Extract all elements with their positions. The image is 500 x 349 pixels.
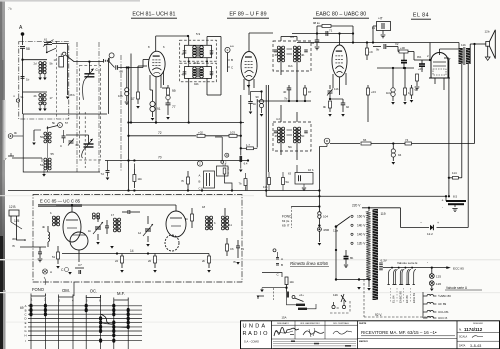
svg-text:EABC 80: EABC 80	[398, 291, 402, 303]
svg-text:N.: N.	[459, 328, 462, 332]
svg-text:90: 90	[256, 95, 260, 99]
terminal gram 1	[8, 134, 13, 139]
svg-text:DIR. CENTRALE: DIR. CENTRALE	[333, 322, 349, 325]
title block frame	[241, 321, 500, 349]
wire tap2	[23, 91, 48, 93]
switch blade osc	[48, 126, 58, 129]
wire B+ top	[297, 42, 459, 44]
capacitor 74 end	[107, 161, 109, 171]
oscillator coil 51	[44, 158, 47, 161]
UNDA RADIO logo cell	[271, 321, 273, 349]
coil 181	[52, 216, 55, 219]
svg-text:15A: 15A	[282, 316, 287, 320]
svg-text:4b: 4b	[210, 73, 214, 77]
capacitor 64 to ground	[316, 34, 318, 41]
svg-text:Rimetto linea 63/56: Rimetto linea 63/56	[290, 261, 328, 266]
fm misc wires	[97, 207, 99, 216]
svg-text:6,3V: 6,3V	[381, 259, 388, 263]
disegno cell	[456, 321, 458, 349]
svg-text:B: B	[281, 263, 283, 267]
svg-text:50: 50	[40, 135, 44, 139]
resistor 94	[392, 142, 394, 144]
svg-text:63: 63	[288, 172, 292, 176]
svg-text:40: 40	[283, 90, 287, 94]
svg-text:1174/112: 1174/112	[464, 327, 483, 332]
internal dash divider	[55, 41, 57, 119]
svg-text:58: 58	[26, 47, 30, 51]
tube V2 EF89	[241, 52, 257, 81]
capacitor 65 annotation	[335, 245, 337, 250]
IF transformer T2 box	[273, 41, 311, 71]
svg-text:9vb: 9vb	[288, 64, 293, 68]
capacitor 56	[21, 76, 25, 78]
svg-text:66: 66	[363, 138, 367, 142]
capacitor cathode	[250, 92, 252, 102]
terminal 1 left	[62, 52, 65, 55]
resistor 103	[367, 88, 370, 95]
resistor motor	[286, 292, 289, 298]
wire to mixer grid	[66, 55, 103, 61]
capacitor electrolytic grid	[403, 53, 405, 59]
signature disegnato	[274, 327, 299, 336]
phono jack box	[217, 166, 229, 176]
gang link dashed x85	[84, 112, 86, 168]
svg-text:5tb: 5tb	[288, 145, 292, 149]
capacitor 40b	[341, 102, 346, 104]
lamp 106	[318, 224, 320, 226]
svg-text:300: 300	[12, 237, 17, 241]
svg-text:RICEVITORE MA. MF. 63/15 –: RICEVITORE MA. MF. 63/15 – 16 –1•	[361, 330, 437, 335]
svg-text:67: 67	[131, 97, 135, 101]
ground osc bottom	[47, 170, 49, 172]
svg-text:Ø06: Ø06	[324, 228, 330, 232]
heater U &#189;ABC 80	[423, 294, 436, 296]
capacitor FM1	[38, 251, 42, 253]
svg-text:8.5: 8.5	[453, 195, 458, 199]
svg-text:12b: 12b	[485, 30, 490, 34]
svg-text:EF 89 – U F 89: EF 89 – U F 89	[229, 12, 266, 18]
svg-text:57: 57	[65, 121, 69, 125]
svg-text:b4: b4	[311, 41, 315, 45]
wire vertical right 1	[448, 58, 450, 196]
svg-text:69: 69	[20, 306, 24, 310]
wire terminal down	[108, 58, 110, 114]
svg-text:−: −	[420, 221, 422, 225]
svg-text:EF 89: EF 89	[405, 295, 409, 303]
svg-text:UCC 8·: UCC 8·	[438, 316, 448, 320]
dash divider x121	[120, 55, 122, 172]
wire bus 75	[257, 100, 311, 102]
filter box 63-10b	[295, 173, 313, 185]
svg-text:72: 72	[158, 131, 162, 135]
svg-text:12.2: 12.2	[427, 232, 433, 236]
svg-text:1b: 1b	[185, 217, 189, 221]
svg-text:DISEGNATO: DISEGNATO	[277, 322, 289, 325]
svg-text:10 b: 10 b	[308, 168, 314, 172]
svg-text:UFF. LABORATORIO: UFF. LABORATORIO	[300, 322, 320, 325]
svg-text:EL 84: EL 84	[392, 295, 396, 303]
svg-text:X2: X2	[395, 42, 399, 46]
svg-text:”: ”	[427, 261, 428, 265]
svg-text:4b: 4b	[301, 53, 305, 57]
terminal gram 2	[8, 155, 14, 157]
svg-text:+05: +05	[418, 67, 423, 71]
svg-text:55: 55	[51, 152, 55, 156]
capacitor 68 series	[109, 62, 114, 68]
coil out fm	[205, 216, 208, 219]
svg-text:B: B	[231, 58, 233, 62]
wire top loop left	[316, 26, 318, 34]
resistor 98	[329, 101, 332, 108]
resistor 67	[138, 65, 147, 67]
svg-text:81: 81	[372, 26, 376, 30]
trimmer 61	[44, 42, 52, 44]
wire x257 detector	[256, 99, 258, 148]
tube V6 ECC85b	[166, 211, 186, 237]
svg-text:126: 126	[436, 282, 441, 286]
svg-text:E CC 85 — UC C 85: E CC 85 — UC C 85	[40, 199, 81, 204]
svg-text:ECH 81– UCH 81: ECH 81– UCH 81	[132, 12, 175, 18]
svg-text:94b: 94b	[194, 82, 199, 86]
wire bus 70	[105, 160, 248, 162]
switch 101	[292, 296, 295, 299]
transformer primary winding	[366, 211, 370, 279]
T1 section B	[185, 67, 212, 79]
svg-text:20: 20	[148, 259, 152, 263]
wire fm plate top	[71, 199, 73, 205]
tube V4 EL84	[431, 53, 448, 79]
svg-text:11: 11	[229, 223, 232, 227]
T2 primary	[277, 46, 280, 49]
wire T1 top feed	[188, 36, 190, 45]
input jack ABC	[204, 171, 215, 188]
EF89 pins	[243, 79, 245, 90]
mains plug	[332, 305, 335, 308]
wire volume down	[318, 147, 320, 243]
svg-text:SCALA: SCALA	[459, 336, 468, 339]
svg-text:UCH 81: UCH 81	[438, 310, 449, 314]
resistor 76	[244, 179, 247, 186]
resistor ECC85 cathode	[57, 252, 60, 259]
wire T1 mid	[220, 37, 222, 96]
terminal B left	[16, 99, 19, 102]
svg-text:2b: 2b	[34, 94, 38, 98]
heater U UCC 8&#183;	[423, 316, 436, 318]
EL84 plate wire	[439, 49, 441, 55]
wire down to B	[221, 137, 223, 161]
FM tuner box dash-dot	[33, 195, 242, 283]
resistor 99	[167, 88, 170, 95]
svg-text:H: H	[24, 334, 26, 338]
capacitor 58b	[410, 88, 413, 95]
wire transformer bottom taps	[368, 280, 370, 288]
wire 220V to diode	[362, 207, 401, 209]
matrix vertical wires	[30, 297, 32, 349]
filter capacitor 85	[266, 195, 446, 197]
heater loop EL 84	[389, 269, 391, 284]
svg-text:b0: b0	[346, 105, 350, 109]
svg-text:7b: 7b	[284, 97, 288, 101]
svg-text:97: 97	[308, 90, 312, 94]
coil L3 pair row2	[39, 94, 42, 97]
svg-text:5A: 5A	[286, 180, 290, 184]
T2 secondary	[293, 46, 296, 49]
wire motor gnd	[262, 287, 287, 289]
resistor 98k top	[317, 25, 322, 27]
resistor 66 horizontal	[330, 143, 360, 145]
svg-text:C: C	[60, 144, 62, 148]
T1 coupling dots	[188, 61, 190, 63]
coil mid 183	[92, 216, 95, 219]
coil 91 rf choke	[150, 101, 155, 106]
svg-text:OM.: OM.	[62, 288, 70, 293]
svg-text:140 V: 140 V	[357, 233, 366, 237]
svg-text:DISEGNO: DISEGNO	[473, 323, 483, 325]
matrix horizontal wires	[28, 305, 142, 307]
capacitor 58	[20, 46, 25, 48]
resistor 58 cathode	[416, 74, 419, 81]
svg-text:68: 68	[120, 70, 124, 74]
svg-text:A: A	[281, 257, 283, 261]
tube V1 ECH81	[149, 51, 166, 77]
T1 section A	[185, 45, 212, 57]
wire grid down	[142, 60, 144, 68]
switch 124	[335, 225, 338, 228]
svg-text:4.0: 4.0	[290, 35, 294, 39]
svg-text:+00: +00	[400, 46, 405, 50]
resistor 74 horizontal	[405, 142, 412, 145]
svg-text:63 (is·: 63 (is·	[282, 219, 290, 223]
ground osc left	[33, 130, 35, 141]
dash motor	[272, 288, 274, 300]
resistor 97	[304, 88, 307, 95]
svg-text:12b: 12b	[333, 293, 338, 297]
wire y33 bus	[292, 33, 353, 35]
dashed routing mains	[363, 279, 365, 317]
T3 caps	[274, 130, 278, 132]
wire chassis x268	[267, 85, 269, 172]
resistor 115	[268, 178, 271, 185]
terminal D2	[109, 53, 114, 58]
svg-text:PARTE: PARTE	[359, 322, 367, 325]
svg-text:12 B: 12 B	[9, 205, 16, 209]
terminal B	[276, 263, 279, 265]
speaker wires	[469, 44, 471, 64]
svg-text:0.8: 0.8	[223, 164, 227, 167]
svg-text:44: 44	[182, 52, 186, 56]
svg-text:A: A	[50, 270, 52, 274]
transformer 6.3V secondary	[379, 262, 383, 264]
oscillator coil 50	[44, 132, 47, 135]
svg-text:+0+: +0+	[299, 293, 304, 297]
svg-text:ECH 81: ECH 81	[412, 292, 416, 303]
wire osc to gang	[66, 134, 89, 136]
wire fono branch	[291, 206, 319, 208]
svg-text:3–8–63: 3–8–63	[470, 344, 481, 348]
matrix link curves	[101, 314, 114, 324]
svg-text:Valvole serie E: Valvole serie E	[397, 261, 417, 265]
wire chassis x266	[265, 85, 267, 196]
svg-text:n9: n9	[370, 50, 374, 54]
wire vertical right 4 speaker return	[474, 44, 476, 144]
svg-text:70: 70	[158, 156, 162, 160]
heater loop EF 89	[402, 269, 404, 284]
wire 297 down	[296, 34, 298, 43]
svg-text:7b: 7b	[8, 7, 12, 11]
svg-text:18: 18	[202, 205, 206, 209]
svg-text:11b: 11b	[138, 177, 143, 181]
heater U UF 89	[423, 302, 436, 304]
resistor 110	[404, 88, 407, 95]
resistor 102 h	[197, 134, 205, 137]
fm cap out	[236, 245, 240, 247]
svg-text:-: -	[442, 205, 443, 209]
svg-text:MATRICI: MATRICI	[359, 340, 368, 343]
svg-text:125: 125	[436, 275, 441, 279]
lamp 125	[429, 274, 434, 279]
svg-text:1d: 1d	[138, 231, 142, 235]
capacitor 95 series	[373, 46, 381, 48]
capacitor C osc	[62, 135, 66, 137]
tube V5 ECC85 triode 1	[63, 212, 81, 242]
arrow ECC85 heater	[446, 266, 451, 269]
svg-text:B: B	[199, 180, 201, 184]
capacitor 40	[287, 87, 292, 89]
svg-text:R A D I O: R A D I O	[243, 331, 269, 337]
switch blades	[341, 295, 346, 302]
svg-text:4h: 4h	[275, 134, 279, 138]
wire tap1	[21, 59, 23, 61]
svg-text:+: +	[437, 221, 439, 225]
capacitor 105 cathode	[419, 63, 425, 65]
wire matrix feed	[73, 282, 75, 296]
resistor 103 h	[229, 134, 237, 137]
diode 122	[401, 227, 430, 229]
matrix contacts	[29, 304, 32, 308]
ground under coils row1	[38, 78, 42, 81]
svg-text:5.9: 5.9	[196, 32, 201, 36]
signature laboratorio	[303, 331, 324, 335]
terminal A	[276, 257, 279, 259]
fm resistor right	[226, 244, 229, 251]
fm resistors bottom	[121, 256, 124, 263]
svg-text:+02: +02	[198, 131, 203, 135]
svg-text:Valvole serie U: Valvole serie U	[446, 286, 468, 290]
svg-text:51: 51	[52, 255, 56, 259]
fine print rows	[272, 338, 358, 340]
coil out fm2	[221, 216, 224, 219]
signature centrale	[333, 331, 352, 334]
svg-text:92 V.: 92 V.	[375, 313, 382, 317]
wire cathode bus	[155, 121, 157, 123]
capacitor 71 series	[325, 31, 327, 36]
svg-text:7b: 7b	[233, 260, 237, 264]
svg-text:98 ku: 98 ku	[313, 21, 320, 25]
terminal small B	[221, 161, 224, 164]
svg-text:DATA: DATA	[459, 345, 466, 348]
svg-text:51: 51	[40, 163, 44, 167]
wire motor hook	[262, 273, 282, 278]
coil L1 pair row1	[39, 62, 42, 65]
svg-text:12b V: 12b V	[357, 242, 366, 246]
svg-text:61: 61	[44, 38, 48, 42]
resistor 119 right	[366, 48, 369, 55]
EABC80 pins down	[332, 74, 334, 88]
svg-text:7d: 7d	[101, 172, 105, 176]
capacitor +IT box	[377, 22, 391, 31]
EL84 cathode components	[434, 78, 436, 84]
capacitor series fm	[127, 210, 129, 214]
svg-text:77: 77	[172, 105, 176, 109]
choke 106	[126, 68, 128, 88]
variable capacitor C gang1	[88, 62, 90, 74]
wire vertical right 2	[461, 64, 463, 178]
wire seg	[304, 100, 306, 101]
varcap FM 1	[95, 226, 101, 228]
tube V3 EABC80	[332, 45, 347, 77]
svg-text:114: 114	[452, 171, 457, 175]
fm bottom bus 14	[62, 253, 209, 255]
heater loop EABC 80	[395, 269, 397, 284]
svg-text:7b: 7b	[239, 182, 243, 186]
transformer core	[373, 209, 379, 300]
resistor 108	[133, 175, 136, 182]
resistor 96	[391, 88, 395, 92]
wire gram bus	[12, 157, 42, 159]
circled term small	[197, 161, 202, 166]
svg-text:17: 17	[50, 96, 54, 100]
T2 wiring	[280, 37, 282, 42]
ground bottom fm right	[236, 262, 240, 265]
varcap FM 2	[145, 228, 151, 230]
svg-text:6.4: 6.4	[244, 162, 248, 166]
circled X pencil	[42, 269, 47, 274]
svg-text:1b: 1b	[253, 102, 257, 106]
ground row2	[38, 109, 42, 112]
signature cells	[272, 324, 358, 326]
svg-text:94: 94	[398, 153, 402, 157]
svg-text:EL 84: EL 84	[413, 13, 429, 19]
heater loop ECH 81	[409, 269, 411, 284]
wire loop right down	[352, 26, 354, 34]
svg-text:14: 14	[130, 249, 134, 253]
terminal circled motor	[273, 249, 276, 252]
svg-text:11b: 11b	[334, 87, 339, 91]
svg-text:FONO: FONO	[282, 215, 292, 219]
svg-text:UF 89: UF 89	[438, 302, 447, 306]
gang capacitor box dashed	[80, 65, 101, 160]
svg-text:1b0: 1b0	[386, 91, 391, 95]
svg-text:11b: 11b	[461, 43, 466, 47]
tuning section dividers (dash-dot)	[76, 42, 78, 172]
svg-text:11b: 11b	[290, 280, 295, 284]
tube V5 ECC85 triode 2	[70, 232, 88, 250]
svg-text:9xb: 9xb	[194, 61, 199, 65]
IF transformer T1 box A	[180, 40, 217, 61]
small res 2b right	[241, 195, 244, 197]
wire 48bis ground	[67, 60, 69, 96]
wire vertical right 3	[467, 64, 469, 228]
svg-text:1b: 1b	[26, 78, 30, 82]
svg-text:M.F.: M.F.	[117, 291, 125, 296]
ground filter cap	[454, 204, 456, 207]
svg-text:99: 99	[172, 89, 176, 93]
svg-text:9b: 9b	[323, 105, 327, 109]
svg-text:C6: C6	[230, 247, 234, 251]
svg-text:5b: 5b	[52, 121, 56, 125]
mains switch 123	[335, 278, 337, 280]
T2 caps	[274, 49, 278, 51]
